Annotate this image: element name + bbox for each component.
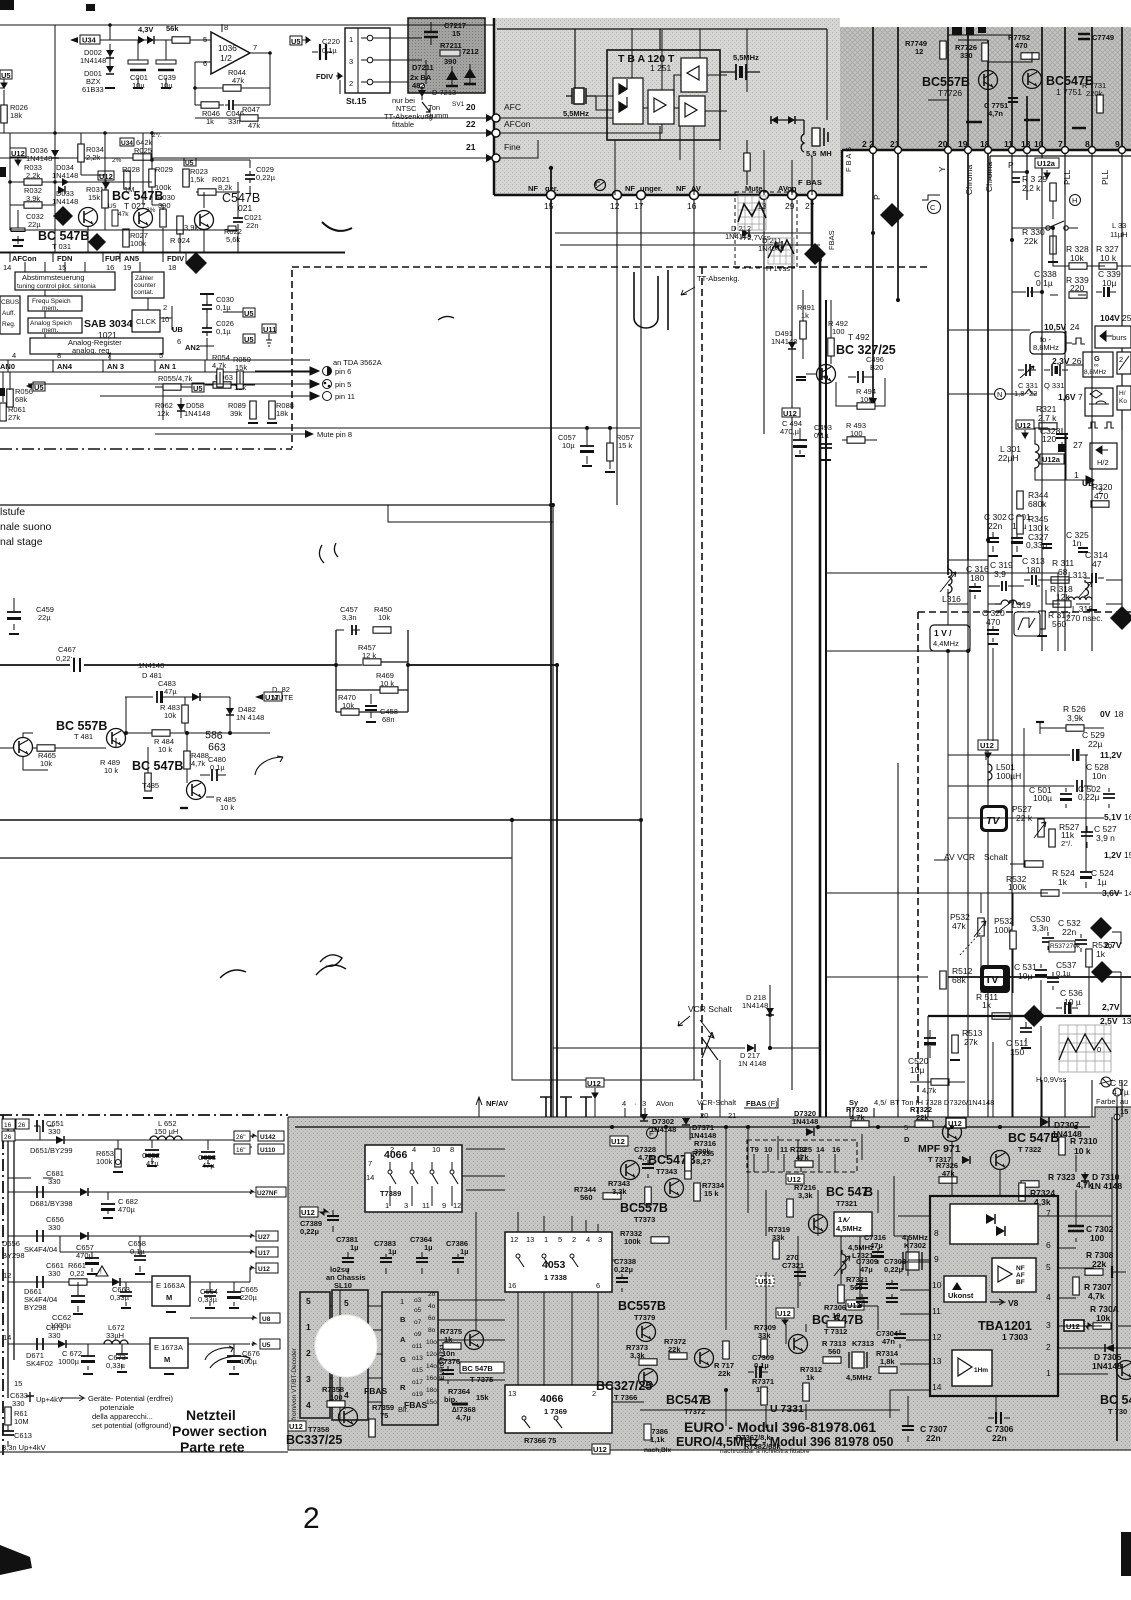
svg-text:analog. reg.: analog. reg. — [72, 346, 112, 355]
label U12 right col — [1016, 420, 1034, 438]
svg-text:22n: 22n — [988, 521, 1002, 531]
capacitor C029 — [152, 160, 276, 196]
svg-text:0,1µ: 0,1µ — [216, 303, 231, 312]
svg-text:75: 75 — [380, 1411, 388, 1420]
svg-text:3: 3 — [349, 57, 353, 66]
IC 4053 — [505, 1232, 612, 1292]
svg-text:18: 18 — [1114, 709, 1124, 719]
resistor R330 — [1022, 227, 1058, 262]
IC TBA120T outline — [607, 50, 720, 140]
svg-text:H 2,7Vss: H 2,7Vss — [740, 233, 771, 242]
svg-text:1N 4148: 1N 4148 — [738, 1059, 766, 1068]
svg-text:Ukonst: Ukonst — [948, 1291, 974, 1300]
capacitor C520 — [908, 1030, 936, 1075]
svg-text:1N4148: 1N4148 — [52, 171, 78, 180]
box top rail — [826, 573, 1058, 651]
svg-text:61B33: 61B33 — [82, 85, 104, 94]
capacitor C494 — [780, 419, 807, 456]
resistor R321 — [1036, 404, 1057, 429]
svg-text:1 7338: 1 7338 — [544, 1273, 567, 1282]
svg-text:AFCon: AFCon — [12, 254, 37, 263]
svg-text:680k: 680k — [1028, 499, 1047, 509]
svg-text:NF: NF — [528, 184, 538, 193]
svg-text:H 1Vss: H 1Vss — [766, 264, 790, 273]
svg-text:10: 10 — [432, 1145, 440, 1154]
crystal Q331 — [1044, 364, 1068, 390]
svg-text:16": 16" — [236, 1147, 246, 1154]
label U12 module left — [300, 1207, 328, 1217]
wire av vcr verticals — [826, 648, 1086, 1117]
svg-text:MPF 971: MPF 971 — [918, 1143, 961, 1155]
resistor R491 — [797, 290, 815, 359]
svg-text:U8: U8 — [262, 1316, 271, 1323]
diode D058 — [177, 398, 210, 418]
svg-text:0,22µ: 0,22µ — [256, 173, 276, 182]
label U12 tr — [946, 1118, 966, 1128]
svg-text:K7313: K7313 — [852, 1339, 874, 1348]
svg-text:220µ: 220µ — [240, 1293, 258, 1302]
svg-text:5: 5 — [344, 1298, 349, 1308]
svg-text:18o: 18o — [426, 1387, 437, 1394]
svg-text:BC547: BC547 — [666, 1393, 705, 1407]
diode D212 — [555, 224, 812, 241]
resistor R033 — [10, 163, 55, 185]
svg-text:100: 100 — [1090, 1233, 1104, 1243]
svg-text:Power section: Power section — [172, 1423, 267, 1439]
svg-text:270k: 270k — [1066, 943, 1081, 950]
svg-text:FDN: FDN — [57, 254, 72, 263]
box sine filter — [1085, 388, 1113, 416]
text VCR Schalt — [678, 1004, 733, 1038]
svg-text:F B A S: F B A S — [844, 147, 853, 172]
svg-text:Fine: Fine — [504, 142, 521, 152]
switch contacts — [1040, 221, 1078, 230]
diode D7310 — [1081, 1172, 1122, 1191]
svg-text:A: A — [178, 1343, 183, 1352]
capacitor C524 — [1080, 866, 1114, 888]
svg-text:1,6V: 1,6V — [1058, 392, 1076, 402]
resistor R057 — [605, 428, 634, 472]
wire left vertical x=55 — [54, 25, 56, 252]
capacitor C046 — [225, 100, 270, 126]
svg-text:18: 18 — [980, 139, 990, 149]
svg-text:470: 470 — [1015, 41, 1028, 50]
capacitor C653 — [198, 1140, 216, 1170]
svg-text:1∧∕: 1∧∕ — [838, 1215, 851, 1224]
box 4,5MHz trap — [834, 1212, 872, 1236]
resistor R345 — [1017, 514, 1050, 534]
svg-text:B: B — [400, 1315, 406, 1324]
svg-text:TBA: TBA — [978, 1319, 1004, 1333]
netzteil dash-dot top border — [0, 1114, 288, 1116]
diode D7213 — [418, 84, 456, 113]
arrow V8 — [990, 1298, 1019, 1308]
resistor small in grey — [744, 140, 750, 185]
svg-text:270 nsec.: 270 nsec. — [1066, 613, 1103, 623]
svg-text:BC 547B: BC 547B — [132, 759, 183, 773]
svg-text:4066: 4066 — [384, 1149, 408, 1161]
capacitor C021 — [233, 210, 262, 230]
svg-text:8,8MHz: 8,8MHz — [1084, 369, 1106, 376]
region1 pin 13 Mute — [745, 184, 769, 434]
switch lever — [702, 1032, 718, 1060]
svg-text:9: 9 — [1115, 139, 1120, 149]
svg-text:U27NF: U27NF — [257, 1190, 278, 1197]
boxed 16 26 input — [2, 1119, 29, 1141]
svg-text:19: 19 — [958, 139, 968, 149]
region2 bus wires vertical — [873, 27, 1122, 150]
svg-text:UB: UB — [172, 325, 183, 334]
diode D211 — [560, 236, 820, 253]
svg-text:0,1µ: 0,1µ — [130, 1247, 145, 1256]
resistor R022 — [224, 226, 242, 244]
svg-text:D7211: D7211 — [412, 63, 434, 72]
svg-text:1M: 1M — [124, 185, 134, 194]
transistor T7372 — [666, 1349, 714, 1417]
transistor T7375 — [460, 1331, 504, 1385]
svg-text:330k: 330k — [694, 1147, 712, 1156]
oscillogram H09 — [1036, 1025, 1111, 1084]
diode D034 — [52, 163, 78, 186]
svg-text:6: 6 — [596, 1281, 600, 1290]
pin 15 right — [1114, 1107, 1128, 1120]
svg-text:26: 26 — [18, 1122, 26, 1129]
svg-text:10µ: 10µ — [1018, 971, 1032, 981]
output U12 — [250, 1263, 278, 1282]
svg-text:AN 1: AN 1 — [159, 362, 176, 371]
svg-text:021: 021 — [238, 203, 252, 213]
svg-text:Auff.: Auff. — [2, 310, 15, 317]
pulse glyph — [1072, 338, 1085, 344]
output U142 — [234, 1131, 284, 1141]
pin 1 UB — [1066, 470, 1094, 488]
hole punch white circle — [315, 1315, 377, 1377]
svg-text:8o: 8o — [428, 1327, 436, 1334]
svg-text:Reg.: Reg. — [2, 321, 16, 328]
svg-text:1N4148: 1N4148 — [742, 1001, 768, 1010]
svg-text:12: 12 — [453, 1201, 461, 1210]
svg-text:4,7n: 4,7n — [988, 109, 1003, 118]
svg-text:Zähler: Zähler — [135, 275, 154, 282]
IC 4066 no2 — [505, 1385, 612, 1433]
svg-text:104V: 104V — [1100, 313, 1120, 323]
row4 wire — [8, 1281, 250, 1283]
svg-text:1: 1 — [1046, 1368, 1051, 1378]
capacitor C664 — [198, 1282, 218, 1308]
svg-text:Q 331: Q 331 — [1044, 381, 1064, 390]
svg-text:Mute pin 8: Mute pin 8 — [317, 430, 352, 439]
capacitor C026 — [200, 319, 234, 346]
svg-text:100µ: 100µ — [240, 1357, 258, 1366]
capacitor C7376 — [438, 1349, 460, 1384]
label U34 — [70, 35, 100, 45]
svg-text:M: M — [166, 1293, 172, 1302]
svg-text:1N4148: 1N4148 — [26, 154, 52, 163]
svg-text:2: 2 — [306, 1348, 311, 1358]
svg-text:U12: U12 — [611, 1137, 625, 1146]
capacitor C057 — [558, 428, 594, 466]
dashed pin box — [747, 1140, 857, 1172]
label U12 r2 — [776, 1308, 794, 1324]
region2 pin 19 — [958, 139, 972, 560]
caps C7309 C7303 — [856, 1257, 906, 1302]
svg-text:1k: 1k — [801, 311, 809, 320]
svg-text:burs: burs — [1112, 333, 1127, 342]
resistor R536 — [1086, 940, 1113, 967]
svg-text:from/von VT/BT-Decoder: from/von VT/BT-Decoder — [291, 1347, 298, 1420]
resistor R021 — [196, 175, 240, 195]
svg-text:4: 4 — [344, 1390, 349, 1400]
svg-text:AVon: AVon — [656, 1099, 673, 1108]
scribble mark U shape — [634, 270, 668, 330]
box CBUS — [0, 296, 20, 334]
wires connector comb — [330, 1306, 382, 1402]
svg-text:T7389: T7389 — [380, 1189, 401, 1198]
svg-text:68k: 68k — [15, 395, 27, 404]
resistor R7344 — [574, 1185, 621, 1202]
svg-text:10k: 10k — [1096, 1313, 1110, 1323]
svg-text:SV1: SV1 — [452, 101, 465, 108]
resistor R7726 — [955, 43, 988, 61]
svg-text:pin 5: pin 5 — [335, 380, 351, 389]
transistor T7322 — [991, 1131, 1060, 1170]
svg-text:22: 22 — [466, 119, 476, 129]
svg-text:10k: 10k — [164, 711, 176, 720]
svg-text:4,3V: 4,3V — [138, 25, 153, 34]
delay line L318 — [1066, 597, 1103, 623]
svg-text:1201: 1201 — [1004, 1319, 1032, 1333]
svg-text:3b: 3b — [1115, 614, 1125, 624]
resistor R492 — [828, 300, 848, 364]
svg-text:1N4148: 1N4148 — [138, 661, 164, 670]
vertical to module VCR — [719, 1060, 721, 1117]
resistor R7332 — [620, 1229, 669, 1246]
svg-text:AN5: AN5 — [124, 254, 139, 263]
svg-text:7212: 7212 — [462, 47, 479, 56]
svg-text:A: A — [400, 1335, 406, 1344]
resistor R317 — [1037, 610, 1071, 636]
svg-text:22n: 22n — [1062, 927, 1076, 937]
svg-text:SAB 3034: SAB 3034 — [84, 318, 133, 330]
transistor T7321 — [809, 1185, 874, 1234]
svg-text:560: 560 — [828, 1347, 841, 1356]
wire rail y=665 bold — [0, 665, 557, 1117]
capacitor C633 — [10, 1391, 63, 1408]
svg-text:47k: 47k — [952, 921, 966, 931]
coil L501 — [988, 760, 1021, 784]
capacitor C657 — [76, 1243, 99, 1274]
svg-text:Y: Y — [937, 166, 947, 172]
svg-text:1/2: 1/2 — [220, 53, 232, 63]
capacitor C7316 — [864, 1233, 886, 1264]
svg-text:10: 10 — [932, 1280, 942, 1290]
svg-text:0,22µ: 0,22µ — [300, 1227, 319, 1236]
resistor R7372 — [664, 1337, 687, 1359]
capacitor C338 — [1020, 269, 1057, 297]
svg-text:47µ: 47µ — [860, 1265, 873, 1274]
svg-text:12o: 12o — [426, 1351, 437, 1358]
op-amp U1036 — [203, 23, 270, 74]
svg-text:EURO/4,5MHz - Modul 396 81978: EURO/4,5MHz - Modul 396 81978 050 — [676, 1435, 893, 1449]
resistor R7371 — [752, 1377, 774, 1405]
svg-text:MUTE: MUTE — [272, 693, 293, 702]
label U5 d — [192, 383, 204, 393]
capacitor C673 — [106, 1344, 128, 1372]
svg-text:8: 8 — [450, 1145, 454, 1154]
sync box oscillogram — [1014, 612, 1040, 636]
voltage 10,5V pin 24 — [1044, 322, 1080, 332]
svg-text:12: 12 — [3, 1271, 11, 1280]
svg-text:3: 3 — [404, 1201, 408, 1210]
resistor R061 — [0, 403, 26, 422]
svg-text:18: 18 — [168, 263, 176, 272]
left bus vertical — [8, 1120, 14, 1398]
svg-text:N: N — [997, 390, 1002, 399]
svg-text:T 7312: T 7312 — [824, 1327, 847, 1336]
region2 pin 8 — [1085, 139, 1096, 330]
svg-text:6: 6 — [1046, 1240, 1051, 1250]
svg-text:BY298: BY298 — [24, 1303, 47, 1312]
svg-text:PLL: PLL — [1062, 170, 1072, 185]
capacitor C7328 — [634, 1145, 656, 1178]
label U17 — [255, 692, 282, 702]
capacitor C319 — [990, 560, 1014, 591]
svg-text:11,2V: 11,2V — [1100, 750, 1122, 760]
coil L316 — [940, 565, 961, 604]
svg-text:22n: 22n — [926, 1433, 941, 1443]
svg-text:T 7322: T 7322 — [1018, 1145, 1041, 1154]
svg-text:330: 330 — [12, 1399, 25, 1408]
svg-text:100k: 100k — [130, 239, 147, 248]
svg-text:C7376: C7376 — [438, 1357, 460, 1366]
svg-text:L316: L316 — [942, 594, 961, 604]
svg-text:U12: U12 — [593, 1445, 607, 1454]
svg-text:o15: o15 — [412, 1367, 423, 1374]
transistor T7312 — [789, 1313, 864, 1354]
capacitor C459 — [7, 598, 54, 634]
svg-text:10µ: 10µ — [910, 1065, 924, 1075]
svg-text:1n: 1n — [1072, 538, 1082, 548]
pulse glyph 2 — [1020, 389, 1037, 394]
oscillogram grid 1 — [738, 196, 771, 242]
label 4 3 — [622, 1099, 646, 1117]
svg-text:14: 14 — [3, 1333, 11, 1342]
row3 wire — [8, 1236, 250, 1252]
svg-text:1 7751: 1 7751 — [1056, 87, 1082, 97]
svg-text:NF: NF — [676, 184, 686, 193]
resistor R493 — [842, 421, 877, 443]
label VCR-Schalt — [697, 1098, 737, 1107]
trimmer L319 — [995, 600, 1031, 612]
svg-text:12: 12 — [510, 1235, 518, 1244]
resistor R7731 — [1082, 81, 1106, 113]
region1 pin 17 NF unger — [625, 184, 663, 1117]
resistor R7216 — [787, 1183, 816, 1217]
label P pin11 — [1008, 160, 1029, 182]
svg-text:20: 20 — [466, 102, 476, 112]
svg-text:E 1663: E 1663 — [156, 1281, 180, 1290]
svg-text:15: 15 — [452, 29, 460, 38]
region2 pin 10 — [1034, 139, 1046, 175]
junction dots module — [610, 1125, 1114, 1392]
svg-text:U142: U142 — [260, 1134, 276, 1141]
junction dots buses — [124, 226, 1055, 1017]
svg-text:·: · — [634, 1099, 637, 1108]
row2 wire — [8, 1191, 250, 1193]
resistor R7375 — [440, 1327, 462, 1349]
svg-text:Netzteil: Netzteil — [186, 1407, 236, 1423]
svg-text:0: 0 — [1097, 1045, 1101, 1054]
resistor 4,7k floating — [910, 1079, 965, 1095]
capacitor C7306 — [986, 1412, 1014, 1443]
svg-text:B: B — [702, 1393, 711, 1407]
svg-text:F: F — [649, 1129, 654, 1138]
svg-text:G: G — [400, 1355, 406, 1364]
resistor R512 — [940, 966, 973, 989]
svg-text:390: 390 — [444, 57, 457, 66]
label U12 — [10, 148, 26, 165]
capacitor C536 — [1056, 988, 1083, 1014]
resistor R318 — [1050, 584, 1073, 607]
diode D651 — [30, 1136, 73, 1155]
text an Chassis — [326, 1265, 366, 1290]
svg-text:5: 5 — [306, 1296, 311, 1306]
svg-text:U5: U5 — [244, 335, 254, 344]
resistor R024 — [170, 216, 198, 245]
svg-text:Schalt: Schalt — [984, 852, 1008, 862]
svg-text:100k: 100k — [155, 183, 172, 192]
diamond 3a — [880, 203, 904, 227]
region1 pin 27 FBAS — [798, 178, 822, 211]
dark block diodes D7211 D7212 — [410, 63, 476, 90]
svg-text:VCR Schalt: VCR Schalt — [688, 1004, 733, 1014]
svg-text:3: 3 — [306, 1374, 311, 1384]
wire bc327 down — [800, 384, 826, 440]
TBA120T amp cell 2 — [648, 90, 674, 124]
svg-text:K7302: K7302 — [904, 1241, 926, 1250]
resistor R054 — [212, 353, 230, 387]
svg-text:R7211: R7211 — [440, 41, 462, 50]
pin labels AFCon FDN FUP AN5 FDIV — [3, 253, 186, 272]
svg-text:47k: 47k — [232, 76, 244, 85]
diamond 1c — [53, 206, 73, 226]
pin row boxes line — [0, 252, 345, 254]
resistor R327 — [1096, 244, 1119, 269]
diode D482 — [226, 700, 264, 728]
svg-text:8,2?: 8,2? — [696, 1157, 711, 1166]
svg-text:2: 2 — [349, 79, 353, 88]
svg-text:5e: 5e — [1095, 924, 1105, 934]
diode D681 — [30, 1188, 88, 1208]
handwritten 586 663 — [205, 729, 226, 754]
diode D033 — [52, 186, 78, 206]
svg-text:U12: U12 — [301, 1208, 315, 1217]
AV VCR Schalt — [944, 852, 1032, 867]
svg-text:NF: NF — [1016, 1265, 1025, 1272]
resistor R7314 — [876, 1349, 899, 1373]
resistor R329 — [1022, 174, 1056, 201]
transistor T492 — [796, 332, 896, 384]
crystal 5,5MHz top — [720, 53, 760, 80]
svg-text:5,5: 5,5 — [806, 149, 816, 158]
diode D7305 — [1092, 1344, 1122, 1371]
svg-text:tuning control pilot. sintoni: tuning control pilot. sintonia — [17, 283, 96, 290]
transistor T7379 — [618, 1299, 666, 1342]
resistor R034 — [78, 133, 104, 175]
IC TBA1201 box — [930, 1196, 1058, 1396]
resistor R7310 — [1059, 1136, 1098, 1156]
box phase triangle — [1117, 352, 1131, 374]
